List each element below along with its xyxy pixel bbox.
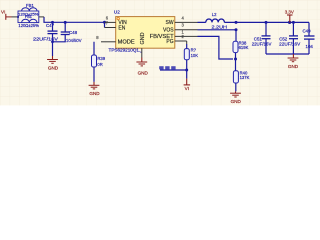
- svg-text:C51: C51: [254, 36, 263, 41]
- svg-text:C47: C47: [46, 23, 55, 28]
- svg-text:619K: 619K: [239, 45, 249, 50]
- svg-text:GND: GND: [231, 99, 242, 104]
- svg-text:104: 104: [306, 44, 314, 49]
- svg-text:R?: R?: [191, 48, 197, 53]
- svg-text:2.2UH: 2.2UH: [212, 25, 228, 30]
- svg-text:R39: R39: [97, 56, 105, 61]
- svg-text:GND: GND: [48, 65, 59, 70]
- svg-text:GND: GND: [288, 64, 299, 69]
- svg-text:VI: VI: [1, 9, 5, 14]
- svg-text:22UF/16V: 22UF/16V: [33, 36, 58, 41]
- svg-text:0R: 0R: [97, 62, 102, 67]
- svg-text:104/50V: 104/50V: [66, 38, 82, 43]
- svg-text:MODE: MODE: [118, 40, 136, 46]
- svg-text:GND: GND: [138, 70, 149, 75]
- svg-text:10K: 10K: [191, 53, 199, 58]
- svg-text:U2: U2: [114, 9, 120, 14]
- svg-text:3.3V: 3.3V: [285, 9, 294, 14]
- svg-text:C52: C52: [279, 36, 288, 41]
- svg-text:22UF/16V: 22UF/16V: [252, 42, 272, 47]
- svg-text:EN: EN: [118, 25, 125, 31]
- svg-text:TPS629210Q1: TPS629210Q1: [109, 48, 140, 53]
- svg-text:GND: GND: [89, 91, 100, 96]
- svg-text:L2: L2: [212, 12, 217, 17]
- svg-text:SW: SW: [166, 20, 174, 26]
- svg-text:GND: GND: [140, 32, 146, 44]
- svg-text:FB1: FB1: [25, 15, 32, 19]
- svg-text:137K: 137K: [240, 75, 250, 80]
- svg-text:C48: C48: [69, 30, 78, 35]
- svg-text:PG: PG: [166, 39, 173, 45]
- svg-text:22UF/16V: 22UF/16V: [279, 42, 300, 47]
- svg-text:C49: C49: [303, 29, 312, 34]
- svg-text:120Ω±25%: 120Ω±25%: [18, 23, 39, 28]
- svg-text:VOS: VOS: [163, 28, 174, 34]
- svg-text:VI: VI: [185, 86, 189, 91]
